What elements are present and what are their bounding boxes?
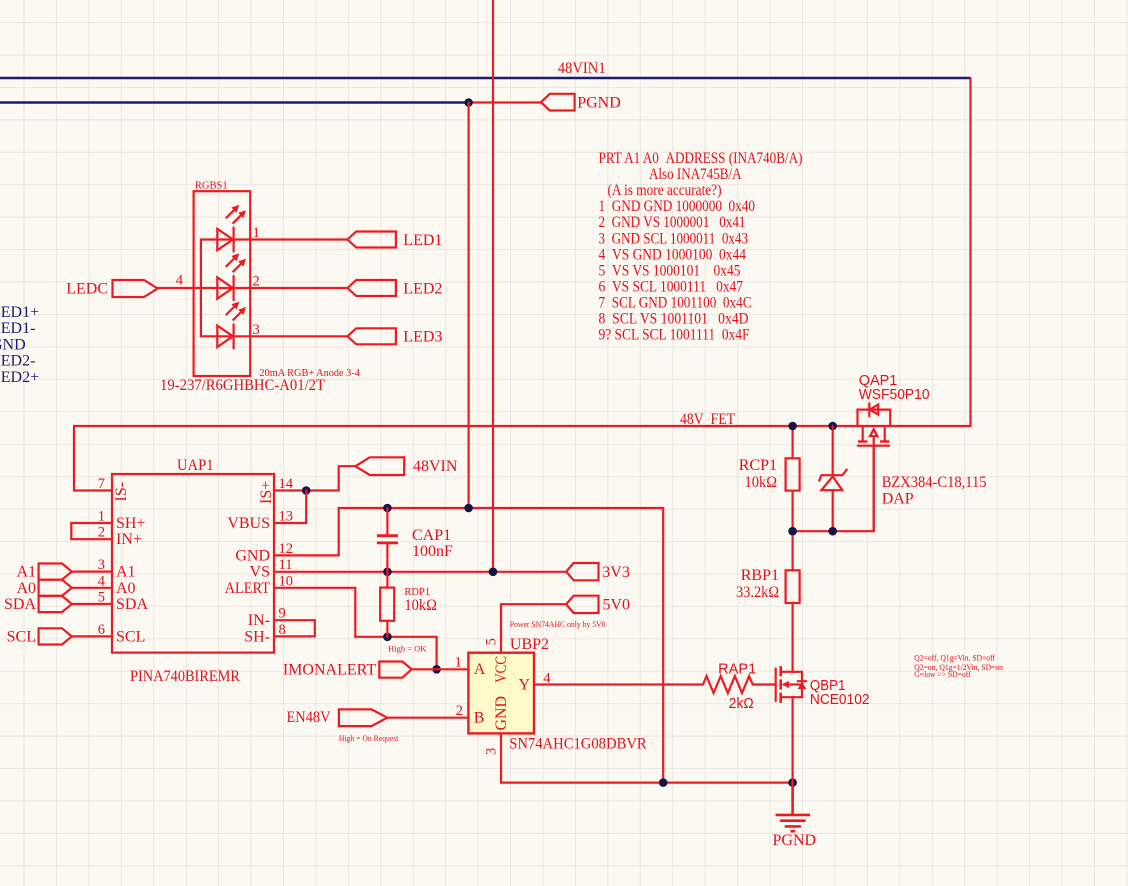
resistor RCP1 stub top — [791, 426, 793, 458]
wire IMONALERT to pin A — [412, 668, 469, 670]
port 48VIN — [355, 457, 404, 475]
svg-text:B: B — [474, 710, 485, 727]
capacitor CAP1 plates — [377, 536, 398, 543]
QBP1 drain lead — [781, 603, 793, 672]
svg-text:LED2: LED2 — [403, 280, 442, 297]
wire Y pin 4 to RAP1 — [534, 683, 703, 685]
svg-text:2: 2 — [253, 274, 260, 290]
svg-text:100nF: 100nF — [412, 543, 453, 560]
svg-text:11: 11 — [279, 557, 293, 573]
port A0 — [39, 580, 72, 596]
resistor RBP1 stub top — [791, 531, 793, 570]
svg-text:VCC: VCC — [493, 656, 510, 683]
port 5V0 — [566, 596, 598, 613]
svg-text:IN+: IN+ — [116, 531, 142, 548]
svg-text:LEDC: LEDC — [66, 281, 108, 298]
svg-text:G=low >> SD=off: G=low >> SD=off — [914, 669, 971, 679]
diode zener triangle — [821, 476, 842, 490]
wire pin 4 — [72, 587, 112, 589]
svg-text:SH-: SH- — [244, 628, 270, 645]
svg-text:LED1+: LED1+ — [0, 304, 39, 321]
svg-text:PGND: PGND — [773, 832, 817, 849]
wire PGND bus (blue) — [0, 101, 469, 104]
wire ground rail — [501, 781, 793, 783]
port EN48V — [339, 709, 387, 726]
svg-text:GND: GND — [235, 547, 270, 564]
junction gate net/zener — [828, 527, 837, 536]
QBP1 source lead — [781, 697, 793, 782]
svg-text:SDA: SDA — [4, 596, 36, 613]
svg-text:33.2kΩ: 33.2kΩ — [736, 584, 779, 601]
resistor RCP1 body — [786, 458, 800, 490]
svg-text:PINA740BIREMR: PINA740BIREMR — [130, 668, 240, 685]
transistor QAP1 (PMOS) body diode loop — [858, 410, 891, 426]
svg-text:2 GND VS 1000001 0x41: 2 GND VS 1000001 0x41 — [599, 214, 746, 231]
svg-text:A1: A1 — [16, 564, 36, 581]
svg-text:BZX384-C18,115: BZX384-C18,115 — [882, 474, 987, 491]
wire RAP1 to QBP1 gate — [753, 683, 775, 685]
junction pin14/VBUS — [302, 486, 311, 495]
wire 3V3 vertical from top — [492, 0, 494, 572]
junction GND/PGND drop — [464, 504, 473, 513]
svg-text:A0: A0 — [116, 580, 136, 597]
junction rail/GND net — [659, 778, 668, 787]
QAP1 gate plate — [858, 445, 890, 447]
svg-text:SCL: SCL — [116, 628, 145, 645]
junction gate net/RCP1 — [788, 527, 797, 536]
svg-text:Y: Y — [519, 677, 531, 694]
svg-text:CAP1: CAP1 — [412, 527, 451, 544]
svg-text:3 GND SCL 1000011 0x43: 3 GND SCL 1000011 0x43 — [599, 230, 749, 247]
svg-text:SH+: SH+ — [116, 515, 145, 532]
svg-text:5V0: 5V0 — [603, 596, 631, 613]
wire pin 12 GND net — [274, 508, 663, 555]
wire loop pins 1-2 — [71, 523, 112, 539]
svg-text:1: 1 — [455, 655, 462, 671]
wire PGND stub to port — [469, 101, 541, 103]
svg-text:3: 3 — [484, 748, 500, 755]
svg-text:1 GND GND 1000000 0x40: 1 GND GND 1000000 0x40 — [599, 198, 756, 215]
svg-text:4: 4 — [176, 273, 184, 289]
wire pin 14 to 48VIN — [274, 466, 355, 490]
svg-text:2: 2 — [456, 703, 463, 719]
svg-text:7: 7 — [98, 476, 105, 492]
junction on PGND bus — [464, 98, 473, 107]
wire pin 3 — [72, 570, 112, 572]
svg-text:48VIN1: 48VIN1 — [558, 60, 606, 77]
port 3V3 — [566, 563, 598, 580]
capacitor C1 : CAP1 stub top — [386, 508, 388, 535]
svg-text:A1: A1 — [116, 564, 136, 581]
QAP1 body diode triangle — [870, 405, 878, 415]
svg-text:LED2-: LED2- — [0, 353, 35, 370]
svg-text:6 VS SCL 1000111 0x47: 6 VS SCL 1000111 0x47 — [599, 278, 744, 295]
diode zener DAP stub top — [832, 426, 834, 475]
svg-text:UBP2: UBP2 — [510, 636, 549, 653]
svg-text:WSF50P10: WSF50P10 — [859, 387, 930, 403]
svg-text:10kΩ: 10kΩ — [745, 474, 778, 491]
svg-text:High = OK: High = OK — [388, 643, 427, 653]
wire PGND vertical down to GND net — [468, 103, 470, 509]
svg-text:5: 5 — [484, 638, 500, 645]
svg-text:13: 13 — [279, 509, 294, 525]
resistor RAP1 (zigzag) — [703, 676, 753, 693]
svg-text:IN-: IN- — [248, 612, 270, 629]
wire 48VIN1 power bus (blue) — [0, 77, 971, 80]
svg-text:RBP1: RBP1 — [741, 567, 779, 584]
port PGND (top) — [541, 94, 575, 111]
wire VCC pin 5 to 5V0 — [501, 604, 566, 653]
svg-text:SN74AHC1G08DBVR: SN74AHC1G08DBVR — [509, 735, 647, 752]
wire LED anode bus — [200, 240, 202, 337]
svg-text:1: 1 — [253, 225, 260, 241]
svg-text:IS-: IS- — [113, 482, 130, 502]
svg-text:A0: A0 — [16, 580, 36, 597]
wire VBUS link — [274, 491, 306, 524]
component RGBS1 body — [194, 191, 251, 376]
svg-text:SCL: SCL — [7, 628, 36, 645]
svg-text:9? SCL SCL 1001111 0x4F: 9? SCL SCL 1001111 0x4F — [599, 327, 750, 344]
port SDA — [39, 596, 72, 612]
wire 48V_FET rail — [74, 425, 971, 427]
port LED1 — [348, 232, 396, 248]
LED D1 light arrows — [226, 205, 246, 224]
wire LED3 — [201, 335, 348, 337]
junction rail/QBP1 source — [788, 778, 797, 787]
junction ALERT/IMONALERT — [432, 665, 441, 674]
svg-text:2kΩ: 2kΩ — [729, 696, 754, 712]
QBP1 bulk lead with arrow — [786, 683, 802, 685]
port SCL — [39, 628, 72, 644]
port A1 — [39, 564, 72, 580]
diode zener cathode bar with tails — [819, 470, 847, 481]
wire loop pins 9-8 — [274, 620, 315, 636]
note PRT address table — [599, 150, 803, 344]
svg-text:PRT A1 A0 ADDRESS (INA740B/A): PRT A1 A0 ADDRESS (INA740B/A) — [599, 150, 803, 167]
wire GND pin 3 down — [500, 733, 502, 782]
svg-text:EN48V: EN48V — [287, 709, 331, 726]
LED D2 light arrows — [226, 253, 246, 272]
QAP1 channel contact bars — [858, 440, 889, 442]
port LED3 — [348, 328, 396, 344]
svg-text:LED1-: LED1- — [0, 320, 35, 337]
svg-text:Power SN74AHC only by 5V0: Power SN74AHC only by 5V0 — [510, 619, 606, 629]
LED D3 of RGBS1 — [217, 324, 233, 348]
svg-text:LED3: LED3 — [403, 329, 442, 346]
transistor QBP1 (NMOS) gate line — [775, 669, 777, 702]
QBP1 body diode symbol — [798, 680, 807, 682]
svg-text:RGBS1: RGBS1 — [195, 181, 228, 192]
QBP1 body diode loop — [793, 672, 802, 697]
diode zener stub bottom — [832, 490, 834, 531]
svg-text:(A is more accurate?): (A is more accurate?) — [608, 182, 722, 199]
ground symbol PGND — [776, 783, 811, 832]
svg-text:7 SCL GND 1001100 0x4C: 7 SCL GND 1001100 0x4C — [599, 295, 752, 312]
QAP1 drain stub — [884, 426, 886, 441]
svg-text:SDA: SDA — [116, 596, 148, 613]
LED D1 of RGBS1 — [217, 228, 233, 252]
QAP1 source stub — [862, 426, 864, 441]
svg-text:High = On Request: High = On Request — [339, 733, 399, 743]
QAP1 bulk arrow — [870, 429, 877, 531]
resistor RDP1 stub bottom — [386, 621, 388, 637]
svg-text:4 VS GND 1000100 0x44: 4 VS GND 1000100 0x44 — [599, 246, 747, 263]
svg-text:RAP1: RAP1 — [718, 661, 756, 677]
port LED2 — [348, 280, 396, 296]
wire gate net RCP1/zener to QAP1 gate — [793, 447, 874, 531]
wire GND net down to rail — [662, 508, 664, 783]
resistor RBP1 body — [786, 570, 800, 603]
gate U2 : component UBP2 body (AND gate) — [468, 653, 534, 734]
svg-text:ALERT: ALERT — [225, 580, 270, 597]
op-amp U1 : component UAP1 body — [112, 474, 274, 653]
svg-text:19-237/R6GHBHC-A01/2T: 19-237/R6GHBHC-A01/2T — [160, 377, 325, 394]
wire 48VIN1 drop to QAP1 drain — [969, 78, 971, 426]
svg-text:8 SCL VS 1001101 0x4D: 8 SCL VS 1001101 0x4D — [599, 311, 749, 328]
svg-text:3V3: 3V3 — [602, 564, 630, 581]
port IMONALERT — [379, 662, 412, 678]
resistor RCP1 stub bottom — [791, 491, 793, 532]
svg-text:VBUS: VBUS — [227, 515, 270, 532]
svg-text:48V_FET: 48V_FET — [680, 411, 735, 428]
svg-text:PGND: PGND — [577, 94, 621, 111]
wire ALERT net — [274, 588, 437, 670]
svg-text:2: 2 — [98, 525, 105, 541]
svg-text:LED1: LED1 — [403, 232, 442, 249]
svg-text:GND: GND — [493, 696, 510, 731]
svg-text:10kΩ: 10kΩ — [404, 597, 437, 614]
junction 48V_FET/zener — [828, 422, 837, 431]
wire pin 5 — [72, 603, 112, 605]
wire EN48V to pin B — [387, 717, 468, 719]
svg-text:IS+: IS+ — [258, 481, 275, 504]
svg-text:IMONALERT: IMONALERT — [283, 661, 376, 678]
svg-text:NCE0102: NCE0102 — [810, 692, 870, 708]
svg-text:48VIN: 48VIN — [413, 458, 458, 475]
svg-text:DAP: DAP — [882, 490, 914, 507]
svg-text:5 VS VS 1000101 0x45: 5 VS VS 1000101 0x45 — [599, 262, 741, 279]
junction ALERT/RDP1 — [383, 633, 392, 642]
svg-text:3: 3 — [253, 322, 260, 338]
capacitor CAP1 stub bottom — [386, 544, 388, 572]
wire LED2 — [158, 287, 348, 289]
svg-text:A: A — [474, 661, 486, 678]
LED D2 of RGBS1 — [217, 276, 233, 300]
junction VS/3V3 drop — [489, 568, 498, 577]
wire pin 6 — [72, 635, 112, 637]
svg-text:Also INA745B/A: Also INA745B/A — [649, 166, 742, 183]
QBP1 channel bars — [779, 666, 782, 703]
junction VS/CAP1 — [383, 568, 392, 577]
resistor RDP1 stub top — [386, 572, 388, 588]
junction GND/CAP1 — [383, 504, 392, 513]
junction 48V_FET/RCP1 — [788, 422, 797, 431]
svg-text:VS: VS — [250, 564, 270, 581]
wire VS net to 3V3 — [274, 571, 566, 573]
svg-text:GND: GND — [0, 336, 26, 353]
svg-text:LED2+: LED2+ — [0, 369, 39, 386]
wire down to UAP1 pin 7 — [74, 426, 112, 491]
svg-text:UAP1: UAP1 — [177, 457, 214, 474]
LED D3 light arrows — [226, 302, 246, 321]
svg-text:RCP1: RCP1 — [739, 457, 777, 474]
port LEDC — [113, 280, 158, 297]
wire LED1 — [201, 238, 348, 240]
QAP1 body diode cathode bar — [868, 403, 870, 416]
resistor RDP1 body — [380, 588, 394, 621]
